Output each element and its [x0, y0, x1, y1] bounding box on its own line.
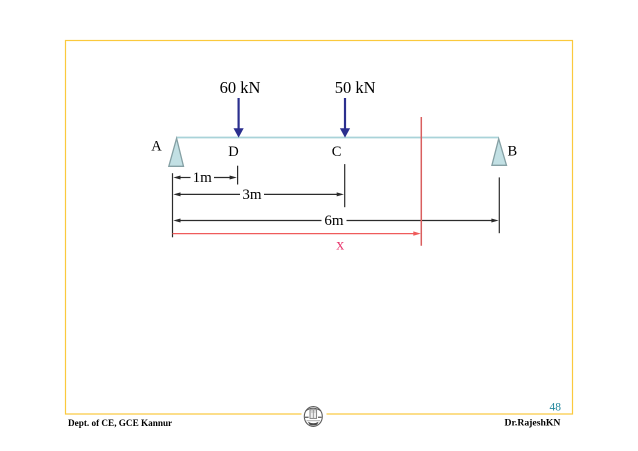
support A (pin): [169, 138, 184, 166]
dimension extension tick at C: [344, 164, 346, 207]
section cut line (red vertical): [420, 117, 422, 246]
svg-text:6m: 6m: [324, 213, 344, 229]
dimension extension tick at A: [172, 173, 174, 237]
svg-text:C: C: [332, 144, 342, 160]
svg-text:B: B: [507, 143, 517, 159]
college logo emblem: [304, 407, 322, 427]
section distance line x (red): [173, 231, 421, 235]
svg-text:3m: 3m: [242, 187, 262, 203]
svg-text:60 kN: 60 kN: [220, 78, 261, 97]
svg-text:x: x: [336, 237, 344, 254]
load arrow 50 kN at C: [340, 98, 350, 138]
dimension line 3m (A to C): [173, 192, 344, 196]
svg-text:A: A: [151, 139, 162, 155]
dimension extension tick at D: [237, 166, 239, 185]
svg-text:Dept. of CE, GCE Kannur: Dept. of CE, GCE Kannur: [68, 418, 172, 428]
svg-text:D: D: [228, 144, 238, 160]
slide border frame: [66, 41, 573, 415]
svg-text:1m: 1m: [193, 170, 213, 186]
logo background gap in border: [302, 404, 327, 428]
support B (pin): [492, 139, 507, 166]
dimension extension tick at B: [498, 177, 500, 233]
dimension line 6m (A to B): [173, 219, 498, 223]
svg-text:48: 48: [550, 402, 562, 414]
load arrow 60 kN at D: [234, 98, 244, 138]
dimension line 1m (A to D): [173, 176, 237, 180]
beam AB: [177, 137, 499, 139]
svg-text:50 kN: 50 kN: [335, 78, 376, 97]
svg-text:Dr.RajeshKN: Dr.RajeshKN: [505, 417, 561, 428]
